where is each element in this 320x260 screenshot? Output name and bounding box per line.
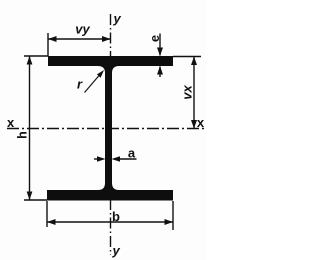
dimension e lower line — [159, 67, 161, 78]
svg-text:x: x — [7, 115, 15, 130]
dimension vx top arrow — [191, 57, 197, 66]
dimension b line — [47, 221, 173, 223]
dimension e upper line — [159, 34, 161, 56]
svg-text:y: y — [113, 11, 122, 26]
dimension b left extension line — [46, 201, 48, 227]
dimension h line — [29, 56, 31, 200]
dimension vx bottom arrow — [191, 120, 197, 129]
I-beam profile body — [47, 56, 173, 201]
svg-text:vx: vx — [180, 85, 195, 100]
dimension a right arrow — [112, 156, 121, 162]
svg-text:e: e — [147, 35, 162, 42]
axis y (vertical dash-dot centerline) — [110, 14, 112, 255]
dimension vy left arrow — [48, 36, 57, 42]
fillet radius r leader arrow — [97, 70, 104, 78]
fillet radius r leader line — [85, 75, 100, 93]
axis x (horizontal dash-dot centerline) — [7, 128, 205, 130]
dimension a left line — [94, 158, 100, 160]
dimension vy right arrow — [102, 36, 111, 42]
dimension h bottom extension line — [24, 199, 47, 201]
dimension a left arrow — [97, 156, 106, 162]
svg-text:a: a — [128, 146, 136, 161]
dimension h bottom arrow — [27, 192, 33, 201]
svg-text:h: h — [16, 131, 30, 139]
dimension b left arrow — [47, 219, 56, 225]
svg-text:vy: vy — [75, 22, 90, 37]
dimension h top arrow — [27, 56, 33, 65]
dimension vx extension line — [173, 56, 201, 58]
dimension vy extension line — [47, 33, 49, 56]
svg-text:y: y — [112, 243, 121, 258]
dimension a right line — [117, 158, 137, 160]
dimension b right arrow — [165, 219, 174, 225]
dimension e upper arrow — [157, 48, 163, 57]
svg-text:x: x — [197, 115, 205, 130]
dimension h top extension line — [24, 55, 48, 57]
svg-text:b: b — [112, 209, 120, 224]
dimension vx line — [193, 57, 195, 129]
dimension vy line — [48, 38, 111, 40]
dimension e lower arrow — [157, 66, 163, 75]
dimension b right extension line — [172, 201, 174, 230]
